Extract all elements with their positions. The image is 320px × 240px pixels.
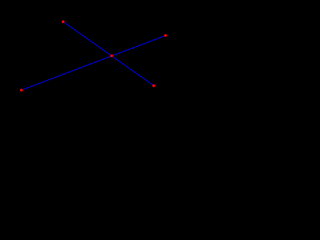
point C (left endpoint) bbox=[20, 89, 23, 92]
line segment AD (top-left to bottom-right) bbox=[63, 22, 154, 86]
point A (top endpoint) bbox=[62, 20, 65, 23]
point D (bottom-right endpoint) bbox=[152, 84, 155, 87]
point E (intersection) bbox=[110, 54, 113, 57]
point B (right endpoint) bbox=[164, 34, 167, 37]
line segment CB (bottom-left to top-right) bbox=[21, 36, 165, 91]
